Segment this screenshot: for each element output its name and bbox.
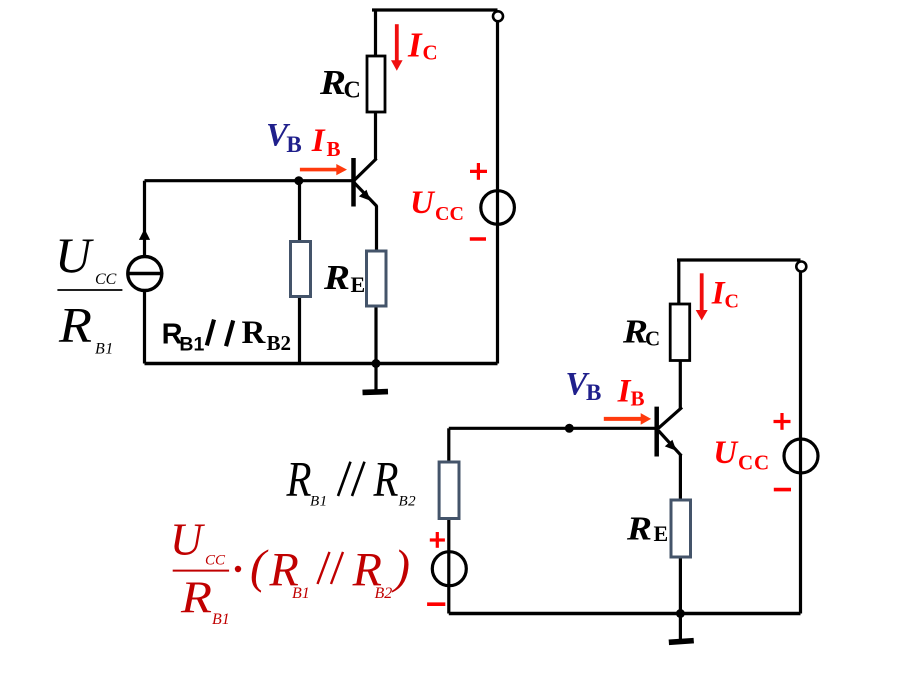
svg-text:R: R — [626, 511, 652, 548]
svg-text:B1: B1 — [179, 334, 204, 356]
svg-text:C: C — [645, 327, 660, 351]
svg-text:B1: B1 — [292, 585, 310, 602]
svg-text:I: I — [407, 25, 423, 64]
svg-text:E: E — [351, 272, 366, 297]
svg-text:I: I — [711, 275, 726, 311]
svg-text:C: C — [423, 41, 438, 65]
svg-text:B2: B2 — [267, 331, 292, 355]
svg-text:C: C — [344, 78, 361, 104]
svg-text:I: I — [311, 123, 326, 159]
svg-text:B: B — [586, 380, 601, 405]
svg-text:U: U — [410, 185, 436, 221]
svg-text:CC: CC — [435, 203, 464, 225]
svg-text:CC: CC — [738, 451, 770, 475]
svg-text:I: I — [617, 374, 632, 410]
svg-text:R: R — [58, 297, 92, 353]
svg-text:(: ( — [250, 541, 269, 594]
svg-text:E: E — [654, 521, 669, 546]
svg-text:B: B — [327, 137, 341, 161]
svg-text:R: R — [323, 258, 350, 297]
svg-text:B2: B2 — [399, 494, 417, 510]
svg-text:CC: CC — [95, 271, 117, 288]
svg-text:B: B — [286, 132, 301, 157]
svg-text:R: R — [286, 450, 312, 506]
svg-text:U: U — [713, 435, 739, 471]
svg-text:R: R — [319, 63, 346, 102]
svg-text:): ) — [391, 541, 410, 594]
svg-text:CC: CC — [205, 552, 226, 568]
svg-text:U: U — [170, 515, 205, 565]
svg-text:U: U — [55, 227, 94, 283]
svg-text:R: R — [242, 315, 267, 351]
svg-text:B: B — [631, 387, 645, 411]
svg-text:B1: B1 — [310, 494, 328, 510]
svg-text:B1: B1 — [212, 611, 230, 628]
svg-text:R: R — [373, 450, 399, 506]
svg-text:B2: B2 — [375, 585, 393, 602]
svg-text:B1: B1 — [95, 340, 114, 357]
svg-text:C: C — [725, 290, 739, 312]
svg-text:R: R — [180, 572, 212, 622]
